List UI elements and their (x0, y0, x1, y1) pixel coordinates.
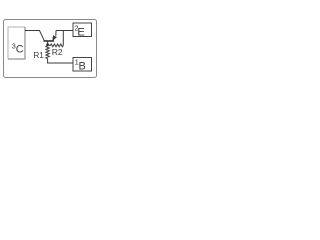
transistor Q1 emitter arrow (PNP, points into bar) (53, 31, 57, 41)
wire: base lead from bar to node (47, 41, 49, 44)
resistor R1 (vertical zigzag) (46, 46, 49, 59)
label 2E (74, 24, 84, 39)
label 1B (75, 58, 86, 73)
node: base junction dot (46, 43, 49, 46)
svg-text:E: E (77, 26, 84, 38)
wire: emitter lead to E box (56, 30, 73, 32)
svg-text:R2: R2 (52, 47, 63, 57)
base terminal box (pin 1, B) (73, 58, 92, 72)
collector terminal box (pin 3, C) (8, 27, 25, 59)
wire: R2 to emitter line (62, 31, 64, 46)
emitter terminal box (pin 2, E) (73, 23, 92, 37)
label 3C (12, 42, 24, 56)
wire: collector lead from C box to transistor (25, 31, 44, 41)
svg-text:R1: R1 (33, 51, 44, 60)
svg-text:C: C (16, 44, 24, 56)
resistor R2 (horizontal zigzag) (49, 44, 64, 47)
wire: R1 to base terminal wire (48, 59, 73, 63)
transistor Q1 base bar (44, 40, 55, 42)
package outline (4, 20, 97, 78)
svg-text:B: B (79, 61, 86, 73)
